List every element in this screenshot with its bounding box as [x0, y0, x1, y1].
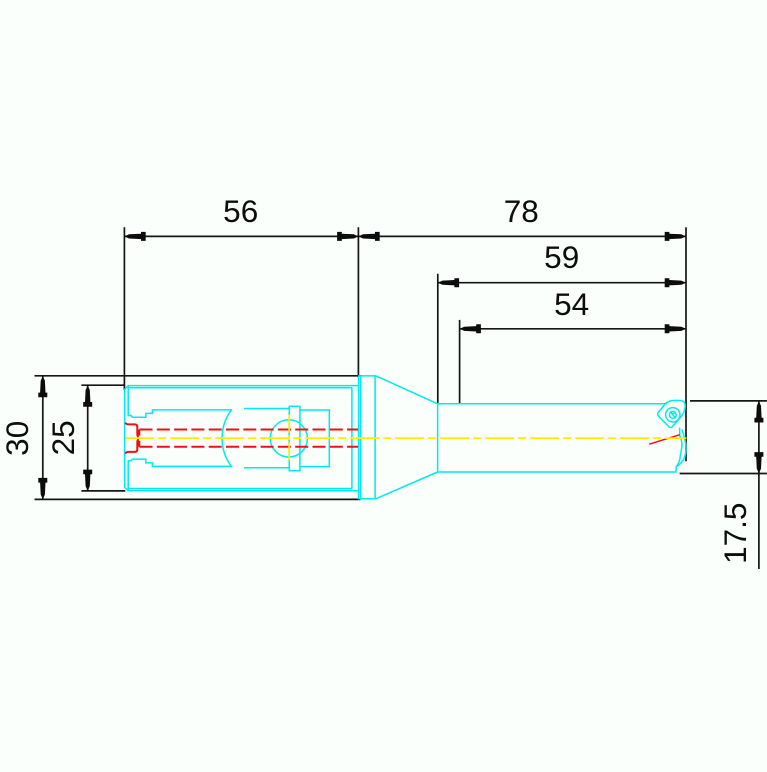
svg-text:59: 59 [544, 239, 579, 275]
svg-text:78: 78 [504, 193, 539, 229]
svg-text:17.5: 17.5 [717, 503, 753, 564]
svg-text:25: 25 [45, 420, 81, 455]
svg-text:56: 56 [223, 193, 258, 229]
svg-text:54: 54 [554, 286, 589, 322]
svg-text:30: 30 [0, 421, 35, 456]
